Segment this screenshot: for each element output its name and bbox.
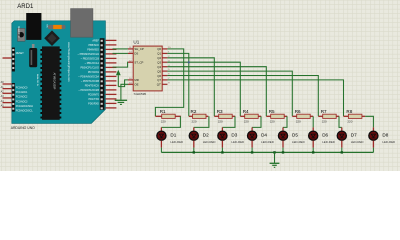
wire D7 cathode to ground rail (341, 148, 343, 153)
left header strip upper (power) (12, 48, 15, 72)
U1 pin 5 Q5 (157, 69, 170, 73)
U1 pin 6 Q6 (157, 74, 170, 78)
svg-text:PC0/ADC0: PC0/ADC0 (16, 86, 28, 89)
wire DS from Arduino pin 12 (113, 52, 129, 54)
svg-text:RESET: RESET (16, 52, 25, 55)
U1 pin 11 SH_CP (128, 47, 144, 51)
U1 pin 4 Q4 (157, 65, 170, 69)
LED D3 (218, 127, 244, 147)
svg-text:ARDUINO UNO: ARDUINO UNO (11, 126, 35, 130)
junction node ground stem (273, 151, 275, 153)
resistor R1 (155, 109, 181, 124)
wire SH_CP from Arduino pin 13 (113, 48, 129, 50)
resistor R5 (266, 109, 287, 124)
svg-text:220: 220 (296, 120, 301, 124)
svg-text:D8: D8 (382, 133, 388, 138)
U1 pin 12 ST_CP (128, 60, 144, 64)
svg-text:PD2/INT0: PD2/INT0 (88, 94, 100, 97)
svg-text:D5: D5 (292, 133, 298, 138)
svg-text:220: 220 (161, 120, 166, 124)
U1 pin 15 Q0 (157, 47, 171, 51)
svg-text:Q4: Q4 (157, 65, 161, 69)
svg-text:ANALOG IN: ANALOG IN (36, 74, 39, 86)
wire R3 to D3 (222, 116, 235, 127)
U1 pin 10 MR (128, 78, 139, 82)
resistor R2 (189, 109, 209, 124)
svg-text:Q6: Q6 (157, 74, 161, 78)
LED D4 (248, 127, 274, 147)
U1 pin 7 Q7 (157, 78, 170, 82)
svg-text:PB0/ICP1/CLKO: PB0/ICP1/CLKO (81, 67, 100, 70)
svg-text:R3: R3 (217, 109, 223, 114)
svg-text:Q2: Q2 (157, 56, 161, 60)
LED D8 (369, 127, 395, 147)
wire R7 to D7 (339, 116, 342, 127)
U1 pin 13 OE (128, 82, 139, 86)
U1 pin 1 Q1 (157, 52, 170, 56)
wire R8 to D8 (365, 116, 373, 127)
Arduino Uno module ARD1 (1, 4, 117, 130)
svg-text:R1: R1 (160, 109, 166, 114)
wire Q7 to R8 (167, 80, 343, 116)
junction node D3 rail (221, 151, 223, 153)
U1 pin 2 Q2 (157, 56, 170, 60)
svg-text:220: 220 (270, 120, 275, 124)
svg-text:Reset BTN: Reset BTN (17, 26, 20, 38)
svg-text:220: 220 (347, 120, 352, 124)
svg-text:ATMEGA328P: ATMEGA328P (53, 73, 57, 90)
wire R2 to D2 (194, 116, 209, 127)
wire R4 to D4 (252, 116, 261, 127)
svg-text:PD7/AIN1: PD7/AIN1 (88, 71, 100, 74)
svg-text:LED-RED: LED-RED (382, 140, 395, 144)
LED D7 (337, 127, 363, 147)
svg-text:DS: DS (134, 52, 138, 56)
svg-text:Q1: Q1 (157, 52, 161, 56)
junction node D5 rail (282, 151, 284, 153)
svg-text:~ PD6/AIN0/OC0A: ~ PD6/AIN0/OC0A (78, 76, 99, 79)
wire D3 cathode to ground rail (221, 148, 223, 153)
digital pin labels (78, 40, 100, 106)
svg-text:D4: D4 (261, 133, 267, 138)
ATmega smd diamond (44, 30, 60, 46)
LED D6 (309, 127, 335, 147)
ATMEGA328 DIP chip (40, 46, 61, 119)
ground symbol near U1 (115, 100, 127, 104)
svg-text:Q7': Q7' (157, 83, 162, 87)
U1 body (133, 46, 162, 91)
svg-text:D6: D6 (322, 133, 328, 138)
wire Q0 to R1 (155, 49, 183, 116)
wire D1 cathode to ground rail (160, 148, 162, 153)
svg-text:SH_CP: SH_CP (134, 47, 143, 51)
svg-text:~ PB1/OC1A: ~ PB1/OC1A (85, 62, 100, 65)
resistor R4 (240, 109, 261, 124)
svg-text:MR: MR (134, 78, 138, 82)
right header strip (100, 38, 105, 110)
analog pin labels (16, 86, 34, 112)
svg-text:220: 220 (244, 120, 249, 124)
svg-text:R7: R7 (321, 109, 327, 114)
left header strip lower (analog) (12, 83, 15, 112)
svg-text:D1: D1 (170, 133, 176, 138)
reset pin stub (3, 57, 12, 59)
Arduino board body (12, 21, 106, 124)
U1 pin 3 Q3 (157, 60, 170, 64)
svg-text:PC5/ADC5/SCL: PC5/ADC5/SCL (16, 110, 34, 113)
svg-text:LED-RED: LED-RED (261, 140, 274, 144)
svg-text:www.TheEngineeringProjects.com: www.TheEngineeringProjects.com (67, 42, 71, 82)
wire Q2 to R3 (167, 58, 214, 117)
svg-text:220: 220 (218, 120, 223, 124)
svg-text:LED-RED: LED-RED (351, 140, 364, 144)
svg-text:PD4/T0/XCK: PD4/T0/XCK (85, 85, 100, 88)
svg-text:R6: R6 (295, 109, 301, 114)
wire VCC to MR pin 10 (118, 80, 128, 87)
junction node D4 rail (251, 151, 253, 153)
svg-text:D3: D3 (231, 133, 237, 138)
wire D5 cathode to ground rail (282, 148, 284, 153)
svg-text:220: 220 (322, 120, 327, 124)
svg-text:~ PD3/INT1/OC2B: ~ PD3/INT1/OC2B (78, 89, 99, 92)
wire R1 to D1 (161, 116, 180, 127)
svg-text:U1: U1 (133, 40, 139, 45)
svg-text:Q5: Q5 (157, 69, 161, 73)
op-amp U1 74HC595 shift register (128, 40, 171, 97)
junction node D7 rail (341, 151, 343, 153)
wire Q3 to R4 (167, 62, 240, 116)
wire R6 to D6 (312, 116, 314, 127)
svg-text:PC4/ADC4/SDA: PC4/ADC4/SDA (16, 105, 34, 108)
USB connector (71, 9, 93, 38)
wire Q1 to R2 (167, 53, 188, 116)
svg-text:Q7: Q7 (157, 78, 161, 82)
junction node D2 rail (193, 151, 195, 153)
svg-text:AREF: AREF (92, 40, 99, 43)
resistor R3 (214, 109, 235, 124)
svg-text:D2: D2 (203, 133, 209, 138)
svg-text:R5: R5 (269, 109, 275, 114)
svg-text:220: 220 (192, 120, 197, 124)
ground symbol on rail (270, 152, 280, 167)
svg-text:ST_CP: ST_CP (134, 61, 143, 65)
wire R5 to D5 (283, 116, 287, 127)
svg-text:Q3: Q3 (157, 61, 161, 65)
resistor R7 (318, 109, 339, 124)
svg-text:LED-RED: LED-RED (203, 140, 216, 144)
LED D2 (189, 127, 215, 147)
wire D6 cathode to ground rail (312, 148, 314, 153)
svg-text:R2: R2 (191, 109, 197, 114)
svg-text:PB4/MISO: PB4/MISO (87, 49, 99, 52)
svg-text:D7: D7 (351, 133, 357, 138)
wire OE pin 13 to ground (121, 84, 128, 100)
analog pin stubs A0-A5 (1, 84, 12, 107)
wire Q5 to R6 (167, 71, 292, 116)
svg-text:~ PB2/SS/OC1B: ~ PB2/SS/OC1B (81, 58, 100, 61)
digital pin stubs (105, 40, 116, 108)
power LED indicator (48, 25, 66, 29)
svg-text:LED-RED: LED-RED (231, 140, 244, 144)
svg-text:LED-RED: LED-RED (170, 140, 183, 144)
svg-text:~ PD5/T1/OC0B: ~ PD5/T1/OC0B (81, 80, 99, 83)
svg-text:Q0: Q0 (157, 47, 161, 51)
electrolytic capacitor (29, 44, 37, 67)
svg-text:~ PB3/MOSI/OC2A: ~ PB3/MOSI/OC2A (78, 53, 100, 56)
svg-text:PD1/TXD: PD1/TXD (88, 98, 99, 101)
svg-text:PD0/RXD: PD0/RXD (88, 103, 99, 106)
svg-text:PC2/ADC2: PC2/ADC2 (16, 96, 28, 99)
svg-text:R8: R8 (346, 109, 352, 114)
LED D1 (157, 127, 183, 147)
wire ST_CP from Arduino pin 9 (113, 62, 129, 67)
svg-text:ARD1: ARD1 (17, 4, 34, 10)
wire Q4 to R5 (167, 67, 266, 117)
svg-text:PC1/ADC1: PC1/ADC1 (16, 91, 28, 94)
wire D4 cathode to ground rail (251, 148, 253, 153)
LED D5 (278, 127, 304, 147)
background grid paper (0, 0, 400, 171)
wire D2 cathode to ground rail (193, 148, 195, 153)
wire Q6 to R7 (167, 76, 318, 117)
power jack (26, 13, 41, 40)
svg-text:74HC595: 74HC595 (133, 92, 146, 96)
svg-text:LED-RED: LED-RED (292, 140, 305, 144)
VCC power terminal (116, 70, 121, 87)
U1 pin 14 DS (128, 52, 138, 56)
reset button (18, 28, 26, 41)
ground rail wire (161, 151, 373, 153)
svg-text:PB5/SCK: PB5/SCK (88, 44, 99, 47)
wire D8 cathode to ground rail (372, 148, 374, 153)
svg-text:LED-RED: LED-RED (322, 140, 335, 144)
svg-text:PC3/ADC3: PC3/ADC3 (16, 100, 28, 103)
U1 pin 9 Q7' (157, 82, 170, 86)
svg-text:OE: OE (134, 83, 138, 87)
svg-text:R4: R4 (243, 109, 249, 114)
resistor R6 (292, 109, 313, 124)
junction node D6 rail (312, 151, 314, 153)
svg-text:ON: ON (46, 24, 48, 28)
resistor R8 (344, 109, 366, 124)
junction dot on Q1 wire (188, 61, 190, 63)
